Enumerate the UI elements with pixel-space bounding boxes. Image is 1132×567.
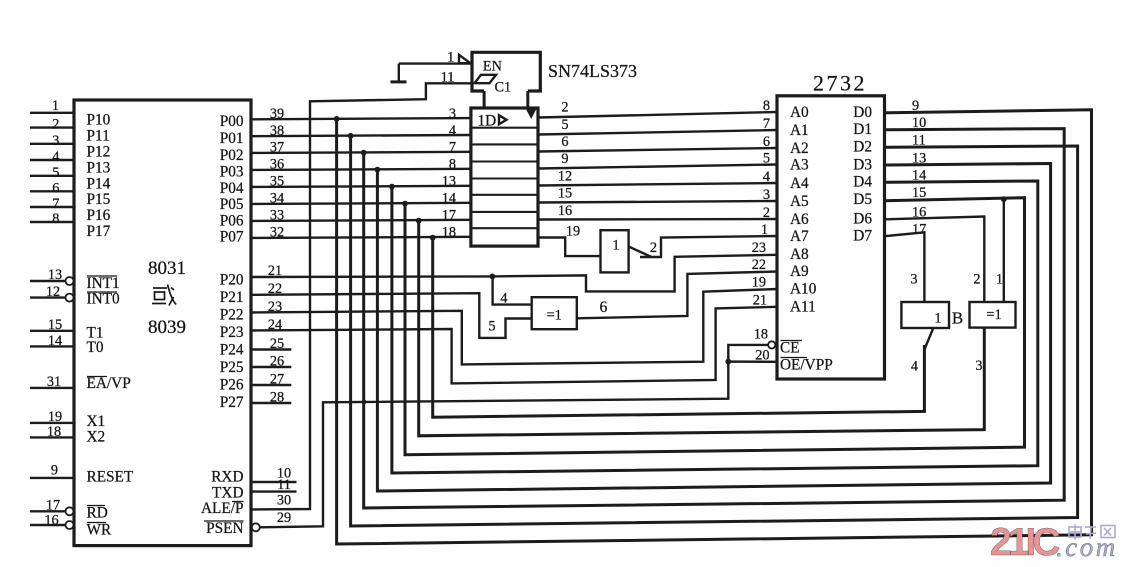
svg-text:RXD: RXD <box>211 469 243 486</box>
svg-text:P17: P17 <box>87 223 111 240</box>
svg-text:15: 15 <box>48 317 62 333</box>
svg-text:X2: X2 <box>87 429 106 446</box>
svg-text:1: 1 <box>612 238 619 254</box>
svg-text:6: 6 <box>561 134 568 150</box>
svg-text:P14: P14 <box>87 175 111 192</box>
svg-text:4: 4 <box>449 123 456 139</box>
wire latch Q2 (pin 6) to 2732 A2 (pin 6) <box>538 148 777 152</box>
wire net P07 to inverter U7 output 4 <box>433 238 925 417</box>
svg-text:8: 8 <box>763 98 770 114</box>
U2 latch body <box>471 108 538 246</box>
svg-text:SN74LS373: SN74LS373 <box>548 61 637 81</box>
svg-text:14: 14 <box>442 191 456 207</box>
svg-text:D5: D5 <box>853 191 872 208</box>
junction OE/CE tie <box>725 359 731 365</box>
wire latch Q4 (pin 12) to 2732 A4 (pin 4) <box>538 183 777 186</box>
svg-text:P15: P15 <box>87 191 111 208</box>
svg-text:CE: CE <box>780 340 800 357</box>
svg-text:12: 12 <box>558 169 572 185</box>
svg-text:X1: X1 <box>87 413 106 430</box>
U1 pin 28 stub (unconnected) <box>251 402 291 404</box>
wire P21 (pin 22) to XOR U4 input 5 <box>251 293 532 338</box>
wire P01: 8031 pin 38 to latch input 4 <box>251 135 471 136</box>
svg-text:D4: D4 <box>853 174 872 191</box>
junction P05 data tap <box>402 201 408 207</box>
svg-text:27: 27 <box>270 372 284 388</box>
junction P07 data tap <box>430 235 436 241</box>
gate U4 XOR box "=1" <box>532 297 577 329</box>
active-low bubble pin 17 <box>66 507 74 515</box>
wire P07: 8031 pin 32 to latch input 18 <box>251 237 471 238</box>
svg-text:P25: P25 <box>220 359 244 376</box>
svg-text:4: 4 <box>500 290 507 306</box>
svg-text:5: 5 <box>763 150 770 166</box>
svg-text:EN: EN <box>483 59 502 75</box>
svg-text:5: 5 <box>52 165 59 181</box>
svg-text:4: 4 <box>52 149 59 165</box>
junction P00 data tap <box>334 116 340 122</box>
svg-text:1: 1 <box>761 222 768 238</box>
wire net P03-D3: to 2732 D3 pin 13 <box>377 164 1050 492</box>
wire U3 output (pin 2) to 2732 A7 (pin 1) <box>640 236 777 257</box>
wire net P06 to XOR U6 output 3 <box>419 221 985 436</box>
wire latch Q6 (pin 16) to 2732 A6 (pin 2) <box>538 218 777 221</box>
wire P03: 8031 pin 36 to latch input 8 <box>251 169 471 170</box>
U1 left pin 2 stub <box>30 126 74 128</box>
U7 output polarity wedge <box>925 329 933 349</box>
svg-text:D7: D7 <box>853 228 872 245</box>
wire latch Q0 (pin 2) to 2732 A0 (pin 8) <box>538 112 777 118</box>
active-low bubble pin 16 <box>66 521 74 529</box>
wire P23 (pin 24) to 2732 A11 (pin 21) <box>251 307 777 384</box>
svg-text:7: 7 <box>449 140 456 156</box>
svg-text:P13: P13 <box>87 159 111 176</box>
svg-text:1: 1 <box>447 49 454 65</box>
svg-text:C1: C1 <box>495 80 512 96</box>
U1 left pin 12 stub <box>30 296 65 298</box>
wire latch Q5 (pin 15) to 2732 A5 (pin 3) <box>538 201 777 203</box>
U2 tri-state triangle <box>525 108 537 119</box>
wire PSEN pin 29 to 2732 OE/VPP pin 20 <box>260 362 777 528</box>
svg-text:5: 5 <box>561 117 568 133</box>
wire 2732 D6 (pin 16) to XOR U6 input 2 <box>885 217 985 303</box>
svg-text:23: 23 <box>752 240 766 256</box>
svg-text:1: 1 <box>996 272 1003 288</box>
svg-text:37: 37 <box>270 140 284 156</box>
svg-text:2: 2 <box>561 100 568 116</box>
U1 left pin 17 stub <box>30 510 65 512</box>
svg-text:P03: P03 <box>220 164 244 181</box>
svg-text:P26: P26 <box>220 376 244 393</box>
svg-text:4: 4 <box>911 359 918 375</box>
IC U2 SN74LS373 control block (EN/C1) <box>472 52 540 91</box>
svg-text:18: 18 <box>442 225 456 241</box>
svg-text:1: 1 <box>934 311 941 327</box>
svg-text:=1: =1 <box>547 308 562 324</box>
svg-text:A8: A8 <box>790 246 809 263</box>
U1 left pin 8 stub <box>30 221 74 223</box>
svg-text:P07: P07 <box>220 229 244 246</box>
svg-text:3: 3 <box>763 187 770 203</box>
svg-text:32: 32 <box>270 225 284 241</box>
svg-text:A3: A3 <box>790 157 809 174</box>
U1 left pin 13 stub <box>30 280 65 282</box>
svg-text:21IC: 21IC <box>990 521 1060 564</box>
svg-text:A7: A7 <box>790 228 809 245</box>
U3 output polarity wedge <box>629 247 652 258</box>
wire P22 (pin 23) to 2732 A10 (pin 19) <box>251 289 777 364</box>
junction D5 tap to XOR U6 input 1 <box>1001 196 1007 202</box>
svg-text:ALE/P: ALE/P <box>201 500 244 517</box>
svg-text:2732: 2732 <box>813 71 867 96</box>
svg-text:B: B <box>952 309 963 328</box>
svg-text:9: 9 <box>561 151 568 167</box>
svg-text:31: 31 <box>47 374 61 390</box>
U2 label D triangle <box>499 115 507 124</box>
svg-text:1D: 1D <box>478 113 497 130</box>
svg-text:EA/VP: EA/VP <box>87 375 131 392</box>
svg-text:18: 18 <box>47 424 61 440</box>
svg-text:8: 8 <box>52 211 59 227</box>
svg-text:15: 15 <box>558 186 572 202</box>
svg-text:18: 18 <box>754 327 768 343</box>
svg-text:3: 3 <box>449 106 456 122</box>
svg-text:8031: 8031 <box>148 258 186 279</box>
svg-text:36: 36 <box>270 157 284 173</box>
IC U1 8031/8039 MCU body <box>74 100 251 546</box>
active-low bubble CE pin 18 <box>768 341 775 348</box>
svg-text:A0: A0 <box>790 104 809 121</box>
svg-text:A10: A10 <box>790 281 817 298</box>
wire P04: 8031 pin 35 to latch input 13 <box>251 186 471 187</box>
wire latch Q7 (pin 19) to gate U3 input <box>538 238 601 257</box>
wire P06: 8031 pin 33 to latch input 17 <box>251 220 471 221</box>
svg-text:P22: P22 <box>220 307 244 324</box>
gate U3 inverter box "1" <box>601 230 629 272</box>
U1 left pin 18 stub <box>30 436 74 438</box>
U2 cell dividers <box>471 127 538 129</box>
junction P02 data tap <box>361 150 367 156</box>
svg-text:22: 22 <box>752 257 766 273</box>
svg-text:3: 3 <box>975 358 982 374</box>
svg-text:25: 25 <box>270 336 284 352</box>
svg-text:A5: A5 <box>790 193 809 210</box>
svg-text:35: 35 <box>270 174 284 190</box>
svg-text:.com: .com <box>1056 532 1118 562</box>
gate U7 inverter box "1" (B) <box>901 302 949 328</box>
gate U6 XOR box "=1" <box>970 302 1016 328</box>
svg-text:26: 26 <box>270 354 284 370</box>
svg-text:6: 6 <box>763 134 770 150</box>
svg-text:P06: P06 <box>220 213 244 230</box>
wire latch Q1 (pin 5) to 2732 A1 (pin 7) <box>538 130 777 135</box>
active-low bubble pin 12 <box>66 294 74 302</box>
wire P20 tap to XOR U4 input 4 <box>493 276 532 304</box>
wire net P01-D2: to 2732 D2 pin 11 <box>351 136 1078 526</box>
svg-text:D0: D0 <box>853 104 872 121</box>
svg-text:8: 8 <box>449 157 456 173</box>
svg-text:38: 38 <box>270 123 284 139</box>
svg-text:21: 21 <box>753 292 767 308</box>
U2 pin 1 polarity triangle <box>459 55 470 63</box>
svg-text:3: 3 <box>52 133 59 149</box>
U1 left pin 6 stub <box>30 190 74 192</box>
svg-text:D2: D2 <box>853 139 872 156</box>
svg-text:=1: =1 <box>986 307 1001 323</box>
svg-text:5: 5 <box>488 319 495 335</box>
svg-text:7: 7 <box>52 196 59 212</box>
svg-text:A4: A4 <box>790 175 809 192</box>
svg-text:A2: A2 <box>790 140 809 157</box>
U1 left pin 16 stub <box>30 524 65 526</box>
svg-text:2: 2 <box>52 117 59 133</box>
svg-text:8039: 8039 <box>148 317 186 338</box>
wire latch Q3 (pin 9) to 2732 A3 (pin 5) <box>538 165 777 169</box>
svg-text:OE/VPP: OE/VPP <box>780 357 833 374</box>
wire net P02-D1: to 2732 D1 pin 10 <box>364 129 1064 508</box>
svg-text:RESET: RESET <box>87 469 134 486</box>
U1 left pin 4 stub <box>30 159 74 161</box>
wire CE pin 18 down to OE junction <box>728 345 768 362</box>
svg-text:11: 11 <box>441 69 455 85</box>
U1 pin 26 stub (unconnected) <box>251 366 291 368</box>
svg-text:2: 2 <box>763 205 770 221</box>
svg-text:4: 4 <box>763 169 770 185</box>
U2 control-to-body neck <box>483 91 486 109</box>
U1 left pin 1 stub <box>30 112 74 114</box>
svg-text:29: 29 <box>277 510 291 526</box>
svg-text:34: 34 <box>270 191 284 207</box>
junction P20/XOR tap <box>490 274 496 280</box>
U1 pin 27 stub (unconnected) <box>251 384 291 386</box>
svg-text:P12: P12 <box>87 144 111 161</box>
svg-text:D1: D1 <box>853 121 872 138</box>
U1 left pin 15 stub <box>30 330 74 332</box>
svg-text:WR: WR <box>87 522 112 539</box>
svg-text:13: 13 <box>48 267 62 283</box>
U1 left pin 19 stub <box>30 422 74 424</box>
svg-text:6: 6 <box>52 180 59 196</box>
U1 left pin 7 stub <box>30 206 74 208</box>
svg-text:2: 2 <box>973 272 980 288</box>
svg-text:A1: A1 <box>790 122 809 139</box>
svg-text:P02: P02 <box>220 147 244 164</box>
svg-text:16: 16 <box>558 203 572 219</box>
IC U5 2732 EPROM body <box>777 96 885 379</box>
svg-text:P11: P11 <box>87 128 110 145</box>
svg-text:P16: P16 <box>87 207 111 224</box>
svg-text:3: 3 <box>910 272 917 288</box>
watermark dian-zi-wang glyphs <box>1069 525 1115 540</box>
svg-text:PSEN: PSEN <box>206 520 243 537</box>
svg-text:P21: P21 <box>220 289 244 306</box>
svg-text:19: 19 <box>566 223 580 239</box>
wire net P04-D4: to 2732 D4 pin 14 <box>392 181 1038 473</box>
wire P20 (pin 21) to 2732 A8 (pin 23) <box>251 255 777 292</box>
svg-text:A6: A6 <box>790 211 809 228</box>
U2 C1 polarity wedge <box>475 75 497 83</box>
svg-text:19: 19 <box>48 409 62 425</box>
svg-text:D6: D6 <box>853 211 872 228</box>
svg-text:13: 13 <box>442 174 456 190</box>
wire P00: 8031 pin 39 to latch input 3 <box>251 118 471 119</box>
U2 pin 1 OE-bar wire <box>399 62 471 64</box>
wire U4 output (pin 6) to 2732 A9 (pin 22) <box>577 272 777 319</box>
U1 left pin 31 stub <box>30 387 74 389</box>
active-low bubble pin 13 <box>66 277 74 285</box>
svg-text:1: 1 <box>52 98 59 114</box>
svg-text:T0: T0 <box>87 339 104 356</box>
svg-text:30: 30 <box>277 493 291 509</box>
junction P01 data tap <box>348 133 354 139</box>
svg-text:14: 14 <box>48 333 62 349</box>
U1 pin 25 stub (unconnected) <box>251 348 291 350</box>
junction P04 data tap <box>389 184 395 190</box>
svg-text:17: 17 <box>442 208 456 224</box>
svg-text:19: 19 <box>752 274 766 290</box>
ground <box>398 64 400 81</box>
wire 2732 D7 (pin 17) to inverter U7 input 3 <box>885 232 925 302</box>
svg-text:11: 11 <box>277 477 291 493</box>
svg-text:D3: D3 <box>853 157 872 174</box>
svg-text:P04: P04 <box>220 180 244 197</box>
svg-text:P01: P01 <box>220 130 244 147</box>
svg-text:P23: P23 <box>220 324 244 341</box>
wire P05: 8031 pin 34 to latch input 14 <box>251 203 471 204</box>
wire P02: 8031 pin 37 to latch input 7 <box>251 152 471 153</box>
U1 left pin 14 stub <box>30 345 74 347</box>
svg-text:TXD: TXD <box>212 484 243 501</box>
svg-text:39: 39 <box>270 106 284 122</box>
svg-text:7: 7 <box>763 116 770 132</box>
active-low bubble PSEN pin 29 <box>252 523 260 531</box>
wire net P00-D0: P00 tap down, across bottom, up right, to 2732 D0 pin 9 <box>337 110 1092 544</box>
svg-text:12: 12 <box>46 284 60 300</box>
wire D5 tap to XOR U6 input 1 <box>1003 199 1005 302</box>
svg-text:16: 16 <box>44 513 58 529</box>
U1 left pin 5 stub <box>30 175 74 177</box>
svg-text:P10: P10 <box>87 112 111 129</box>
svg-text:P05: P05 <box>220 196 244 213</box>
U1 pin 11 TXD stub <box>251 490 297 492</box>
svg-text:INT0: INT0 <box>87 290 120 307</box>
svg-text:2: 2 <box>650 240 657 256</box>
svg-text:A11: A11 <box>790 299 816 316</box>
wire ALE/P pin 30 up to latch pin 11 (C1) <box>251 83 471 509</box>
U1 left pin 9 stub <box>30 477 74 479</box>
U1 title character huo (or) <box>152 285 176 306</box>
svg-text:P24: P24 <box>220 342 244 359</box>
junction P03 data tap <box>375 167 381 173</box>
svg-text:P27: P27 <box>220 394 244 411</box>
svg-text:33: 33 <box>270 208 284 224</box>
svg-text:6: 6 <box>600 299 608 316</box>
U1 pin 10 RXD stub <box>251 481 297 483</box>
svg-text:RD: RD <box>87 505 108 522</box>
svg-text:17: 17 <box>46 498 60 514</box>
scan junction dot on PSEN run <box>362 400 367 405</box>
svg-text:P00: P00 <box>220 113 244 130</box>
svg-text:28: 28 <box>270 390 284 406</box>
wire net P05-D5: to 2732 D5 pin 15 <box>405 198 1025 455</box>
svg-text:A9: A9 <box>790 263 809 280</box>
svg-text:P20: P20 <box>220 272 244 289</box>
U1 left pin 3 stub <box>30 143 74 145</box>
svg-text:9: 9 <box>51 463 58 479</box>
junction P06 data tap <box>416 218 422 224</box>
svg-text:20: 20 <box>755 348 769 364</box>
